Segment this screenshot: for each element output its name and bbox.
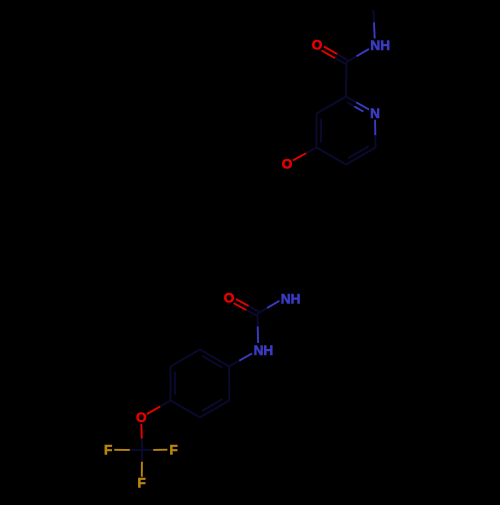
svg-text:NH: NH xyxy=(281,292,301,307)
svg-text:NH: NH xyxy=(370,38,390,53)
svg-text:F: F xyxy=(104,443,112,458)
svg-text:O: O xyxy=(282,156,293,171)
svg-text:F: F xyxy=(138,476,146,491)
svg-text:O: O xyxy=(136,410,147,425)
svg-text:O: O xyxy=(224,291,235,306)
svg-text:N: N xyxy=(370,106,380,121)
svg-text:F: F xyxy=(169,442,177,457)
svg-text:O: O xyxy=(312,38,323,53)
svg-text:NH: NH xyxy=(254,343,274,358)
